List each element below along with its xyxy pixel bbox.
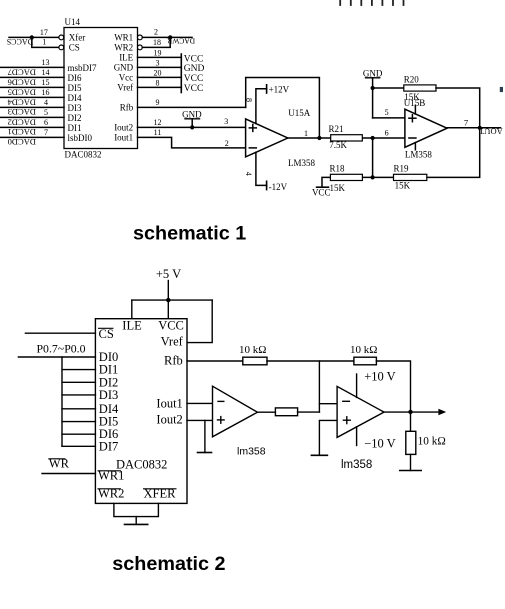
svg-text:DACD6: DACD6: [8, 78, 36, 88]
wire DACD5: [0, 86, 64, 88]
svg-text:Iout2: Iout2: [156, 413, 182, 427]
svg-text:DACD0: DACD0: [8, 137, 36, 147]
wire pin5: [373, 117, 405, 119]
node junction DACWR: [168, 35, 172, 39]
wire to output corner: [376, 361, 410, 412]
svg-text:ILE: ILE: [122, 318, 142, 332]
wire DI3 stub: [62, 394, 95, 396]
wire R18 lead + VCC: [322, 177, 330, 187]
wire GND pin: [138, 66, 182, 68]
svg-text:LM358: LM358: [405, 149, 433, 159]
wire DI7 stub: [62, 445, 95, 447]
wire Iout1: [187, 402, 213, 404]
ground GND over U15B: [366, 77, 380, 79]
svg-text:VCC: VCC: [184, 84, 204, 94]
wire DACD0: [0, 136, 64, 138]
svg-text:8: 8: [156, 79, 160, 88]
resistor middle: [275, 408, 297, 416]
svg-text:12: 12: [154, 118, 162, 127]
power -12V bar: [266, 181, 268, 189]
wire resistor to node: [298, 411, 320, 413]
svg-text:AOUT: AOUT: [478, 126, 502, 136]
wire DI4 stub: [62, 408, 95, 410]
wire DACD3: [0, 106, 64, 108]
svg-text:GND: GND: [114, 62, 134, 72]
resistor 10k first: [243, 357, 267, 365]
wire Iout1 pin11: [138, 137, 246, 148]
wire Vref loop: [187, 300, 212, 343]
svg-text:+5 V: +5 V: [156, 267, 181, 281]
ground chip bottom: [135, 517, 137, 525]
wire between resistors: [267, 360, 354, 362]
wire Iout2: [187, 419, 213, 421]
svg-text:10 kΩ: 10 kΩ: [239, 344, 266, 356]
wire WR: [42, 473, 95, 475]
svg-text:5: 5: [385, 108, 389, 117]
svg-text:CS: CS: [69, 43, 80, 53]
svg-text:VCC: VCC: [184, 55, 204, 65]
wire top rail: [132, 299, 212, 301]
svg-text:DACD5: DACD5: [8, 88, 36, 98]
svg-text:R20: R20: [404, 74, 420, 84]
svg-text:−10 V: −10 V: [364, 437, 395, 451]
wire DACCS net: [9, 36, 59, 38]
svg-text:DACD4: DACD4: [7, 97, 36, 107]
wire R21 to U15B: [362, 137, 405, 139]
svg-text:11: 11: [154, 128, 162, 137]
ground load resistor: [410, 454, 412, 470]
svg-text:+10 V: +10 V: [364, 370, 395, 384]
svg-text:8: 8: [245, 98, 254, 102]
svg-text:DI2: DI2: [68, 113, 82, 123]
svg-text:lm358: lm358: [341, 459, 372, 471]
svg-text:7.5K: 7.5K: [329, 140, 347, 150]
text labels schematic 1: [7, 17, 503, 197]
wire op1 out: [258, 411, 276, 413]
svg-text:WR1: WR1: [114, 33, 133, 43]
svg-text:9: 9: [156, 98, 160, 107]
svg-text:18: 18: [153, 38, 161, 47]
svg-text:Vcc: Vcc: [119, 72, 134, 82]
svg-text:lsbDI0: lsbDI0: [68, 133, 93, 143]
svg-text:DI7: DI7: [99, 439, 118, 453]
wire op2 plus + ground: [319, 420, 337, 455]
wire DACD1: [0, 126, 64, 128]
svg-text:LM358: LM358: [288, 158, 316, 168]
svg-text:17: 17: [40, 28, 48, 37]
svg-text:13: 13: [42, 58, 50, 67]
node output U15A junction: [317, 136, 321, 140]
svg-text:5: 5: [44, 108, 48, 117]
wire U15A pin4 power: [256, 152, 267, 185]
svg-text:R21: R21: [329, 124, 344, 134]
wire R20 to out: [436, 88, 480, 128]
svg-text:GND: GND: [182, 109, 202, 119]
svg-text:U15A: U15A: [288, 108, 310, 118]
pin WR1 bubble: [138, 35, 143, 40]
pin CS bubble: [59, 45, 64, 50]
wire data bus vertical: [61, 357, 63, 446]
wire Rfb out: [187, 360, 243, 362]
svg-text:DACD1: DACD1: [8, 127, 36, 137]
node +5V junction: [166, 298, 170, 302]
text labels schematic 2: [37, 267, 446, 500]
svg-text:2: 2: [225, 139, 229, 148]
svg-text:1: 1: [304, 129, 308, 138]
wire U15A output: [288, 137, 331, 139]
wire CS drop: [32, 37, 59, 47]
wire DI1 stub: [62, 369, 95, 371]
op-amp lm358 first: [213, 386, 258, 437]
svg-text:7: 7: [44, 128, 48, 137]
svg-text:Iout1: Iout1: [156, 396, 182, 410]
svg-text:DAC0832: DAC0832: [65, 150, 102, 160]
node junction DACCS: [30, 35, 34, 39]
svg-text:DI6: DI6: [68, 73, 82, 83]
wire GND to R20: [373, 87, 404, 89]
svg-text:15K: 15K: [330, 183, 346, 193]
svg-text:DI3: DI3: [68, 103, 82, 113]
resistor R19: [394, 174, 427, 180]
marker blue: [500, 87, 503, 92]
wire Iout2 pin12: [138, 126, 246, 128]
resistor R21: [331, 135, 363, 141]
svg-text:DACD3: DACD3: [8, 107, 36, 117]
power +5V lead: [167, 281, 169, 319]
svg-text:15: 15: [42, 78, 50, 87]
resistor 10k second: [354, 357, 377, 365]
resistor R18: [330, 174, 362, 180]
wire U15A pin8 power: [256, 89, 267, 124]
wire WR2/XFER to ground: [114, 503, 158, 516]
DAC U14 body: [64, 28, 138, 149]
wire CS: [25, 332, 95, 334]
svg-text:msbDI7: msbDI7: [68, 63, 97, 73]
wire ILE stub: [131, 300, 133, 319]
svg-text:VCC: VCC: [312, 187, 331, 197]
wire Rfb pin9: [138, 106, 246, 108]
svg-text:DACCS: DACCS: [7, 37, 34, 46]
svg-text:CS: CS: [99, 327, 114, 341]
wire WR2 rise: [142, 37, 170, 47]
wire to op2 minus: [319, 403, 337, 405]
svg-text:19: 19: [154, 49, 162, 58]
svg-text:2: 2: [154, 28, 158, 37]
op-amp lm358 second: [337, 386, 384, 437]
svg-text:ILE: ILE: [119, 52, 133, 62]
wire node6 down: [372, 138, 374, 177]
wire DI6 stub: [62, 433, 95, 435]
svg-text:-12V: -12V: [269, 182, 288, 192]
arrow output: [438, 409, 446, 415]
wire DACD2: [0, 116, 64, 118]
node output junction: [408, 410, 412, 414]
wire U15B power stubs: [414, 105, 416, 114]
resistor R20: [404, 85, 436, 91]
wire Vcc pin: [138, 76, 182, 78]
svg-text:7: 7: [464, 117, 468, 127]
svg-text:Rfb: Rfb: [120, 103, 134, 113]
svg-text:DI3: DI3: [99, 388, 118, 402]
svg-text:15K: 15K: [395, 181, 411, 191]
power bar VCC R18: [317, 186, 329, 188]
svg-text:16: 16: [42, 88, 50, 97]
wire DACD4: [0, 96, 64, 98]
svg-text:+12V: +12V: [269, 85, 290, 95]
op-amp U15B: [405, 109, 447, 147]
svg-text:P0.7~P0.0: P0.7~P0.0: [37, 341, 86, 355]
svg-text:DACD2: DACD2: [8, 117, 36, 127]
op-amp U15A: [246, 119, 288, 157]
svg-text:R19: R19: [394, 163, 410, 173]
wire inverting node vertical: [318, 361, 320, 412]
svg-text:6: 6: [44, 118, 48, 127]
wire DI2 stub: [62, 381, 95, 383]
svg-text:DACD7: DACD7: [8, 68, 36, 78]
bus stub ticks top: [340, 0, 403, 5]
power bar VCC/GND stack: [180, 54, 182, 93]
svg-text:3: 3: [224, 117, 228, 126]
power +12V bar: [266, 85, 268, 93]
svg-text:DI5: DI5: [68, 83, 82, 93]
wire DACD7: [0, 66, 64, 68]
svg-text:R18: R18: [330, 164, 346, 174]
svg-text:4: 4: [244, 172, 253, 176]
resistor 10k vertical: [410, 412, 412, 431]
svg-text:DI4: DI4: [68, 93, 82, 103]
svg-text:DI1: DI1: [68, 123, 82, 133]
svg-text:Iout1: Iout1: [114, 133, 133, 143]
svg-text:4: 4: [44, 98, 48, 107]
wire DI5 stub: [62, 421, 95, 423]
svg-text:3: 3: [156, 59, 160, 68]
svg-text:Rfb: Rfb: [164, 354, 183, 368]
svg-text:VCC: VCC: [184, 74, 204, 84]
node R21 junction: [371, 136, 375, 140]
ground Iout2: [204, 420, 206, 452]
svg-text:U14: U14: [65, 17, 81, 27]
svg-text:Iout2: Iout2: [114, 123, 133, 133]
ground GND over Iout2: [185, 118, 200, 120]
svg-text:lm358: lm358: [237, 446, 266, 458]
svg-text:GND: GND: [184, 64, 205, 74]
svg-text:WR2: WR2: [114, 43, 133, 53]
svg-text:10 kΩ: 10 kΩ: [350, 344, 377, 356]
svg-text:Vref: Vref: [117, 83, 133, 93]
wire op2 output: [384, 411, 439, 413]
svg-text:Xfer: Xfer: [69, 33, 86, 43]
svg-text:20: 20: [154, 69, 162, 78]
DAC0832 body schematic2: [95, 319, 187, 504]
wire feedback loop top: [246, 78, 320, 139]
pin WR2 bubble: [138, 45, 143, 50]
wire DI0: [18, 356, 95, 358]
svg-text:schematic 2: schematic 2: [112, 553, 225, 575]
wire R19 to out: [427, 128, 480, 178]
svg-text:VCC: VCC: [158, 318, 184, 332]
svg-text:GND: GND: [363, 68, 383, 78]
svg-text:U15B: U15B: [404, 98, 426, 108]
svg-text:10 kΩ: 10 kΩ: [418, 436, 446, 448]
wire U15B output AOUT: [447, 127, 501, 129]
wire R18 to R19: [362, 176, 393, 178]
svg-text:Vref: Vref: [161, 335, 184, 349]
wire Vref pin: [138, 86, 182, 88]
wire op2 power stubs: [356, 374, 358, 397]
svg-text:DACWR: DACWR: [167, 37, 195, 46]
wire DACD6: [0, 76, 64, 78]
wire ILE to VCC: [138, 56, 182, 58]
svg-text:6: 6: [385, 128, 389, 137]
svg-text:schematic 1: schematic 1: [133, 223, 246, 245]
svg-text:1: 1: [42, 38, 46, 47]
wire DACWR net: [142, 36, 192, 38]
pin Xfer bubble: [59, 35, 64, 40]
svg-text:14: 14: [42, 68, 50, 77]
